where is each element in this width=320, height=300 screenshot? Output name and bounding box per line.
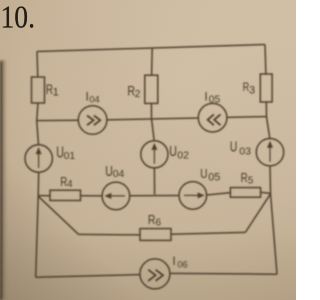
svg-text:10.: 10.	[1, 0, 36, 34]
